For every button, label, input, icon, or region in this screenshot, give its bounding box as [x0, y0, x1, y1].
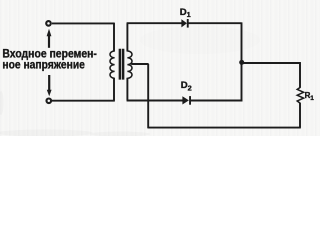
input terminal top [46, 21, 51, 26]
wire: primary top lead [113, 23, 115, 52]
wire: D2 line from secondary bottom lead [127, 78, 183, 101]
transformer secondary winding [127, 51, 132, 78]
diode D1 [181, 19, 187, 27]
arrowhead down [47, 90, 52, 96]
input terminal bottom [47, 99, 52, 104]
resistor R1 [297, 87, 303, 103]
transformer primary winding [110, 51, 115, 78]
transformer core [120, 49, 123, 80]
svg-text:ное напряжение: ное напряжение [2, 58, 85, 72]
svg-text:1: 1 [310, 95, 314, 102]
diode D2 [182, 96, 189, 104]
junction dot [239, 60, 244, 65]
wire: junction to load R1 [242, 62, 301, 87]
wire: secondary top lead up to D1 line [127, 23, 182, 51]
wire: D1 cathode to top-right corner and down [188, 22, 241, 101]
wire: center tap return [131, 64, 148, 128]
wire: primary bottom to bottom terminal [52, 100, 115, 102]
arrow down to bottom terminal [48, 75, 50, 92]
svg-text:1: 1 [187, 10, 191, 19]
wire: primary bottom lead [113, 78, 115, 101]
wire: D2 cathode to right vertical [191, 100, 242, 102]
svg-text:2: 2 [188, 83, 192, 92]
wire: top terminal to transformer primary [52, 22, 114, 24]
arrowhead up [47, 29, 52, 36]
wire: bottom rail [148, 127, 301, 129]
arrow up to top terminal [48, 35, 50, 48]
scan smudges (background noise) [0, 26, 260, 137]
wire: R1 bottom lead [299, 103, 301, 128]
